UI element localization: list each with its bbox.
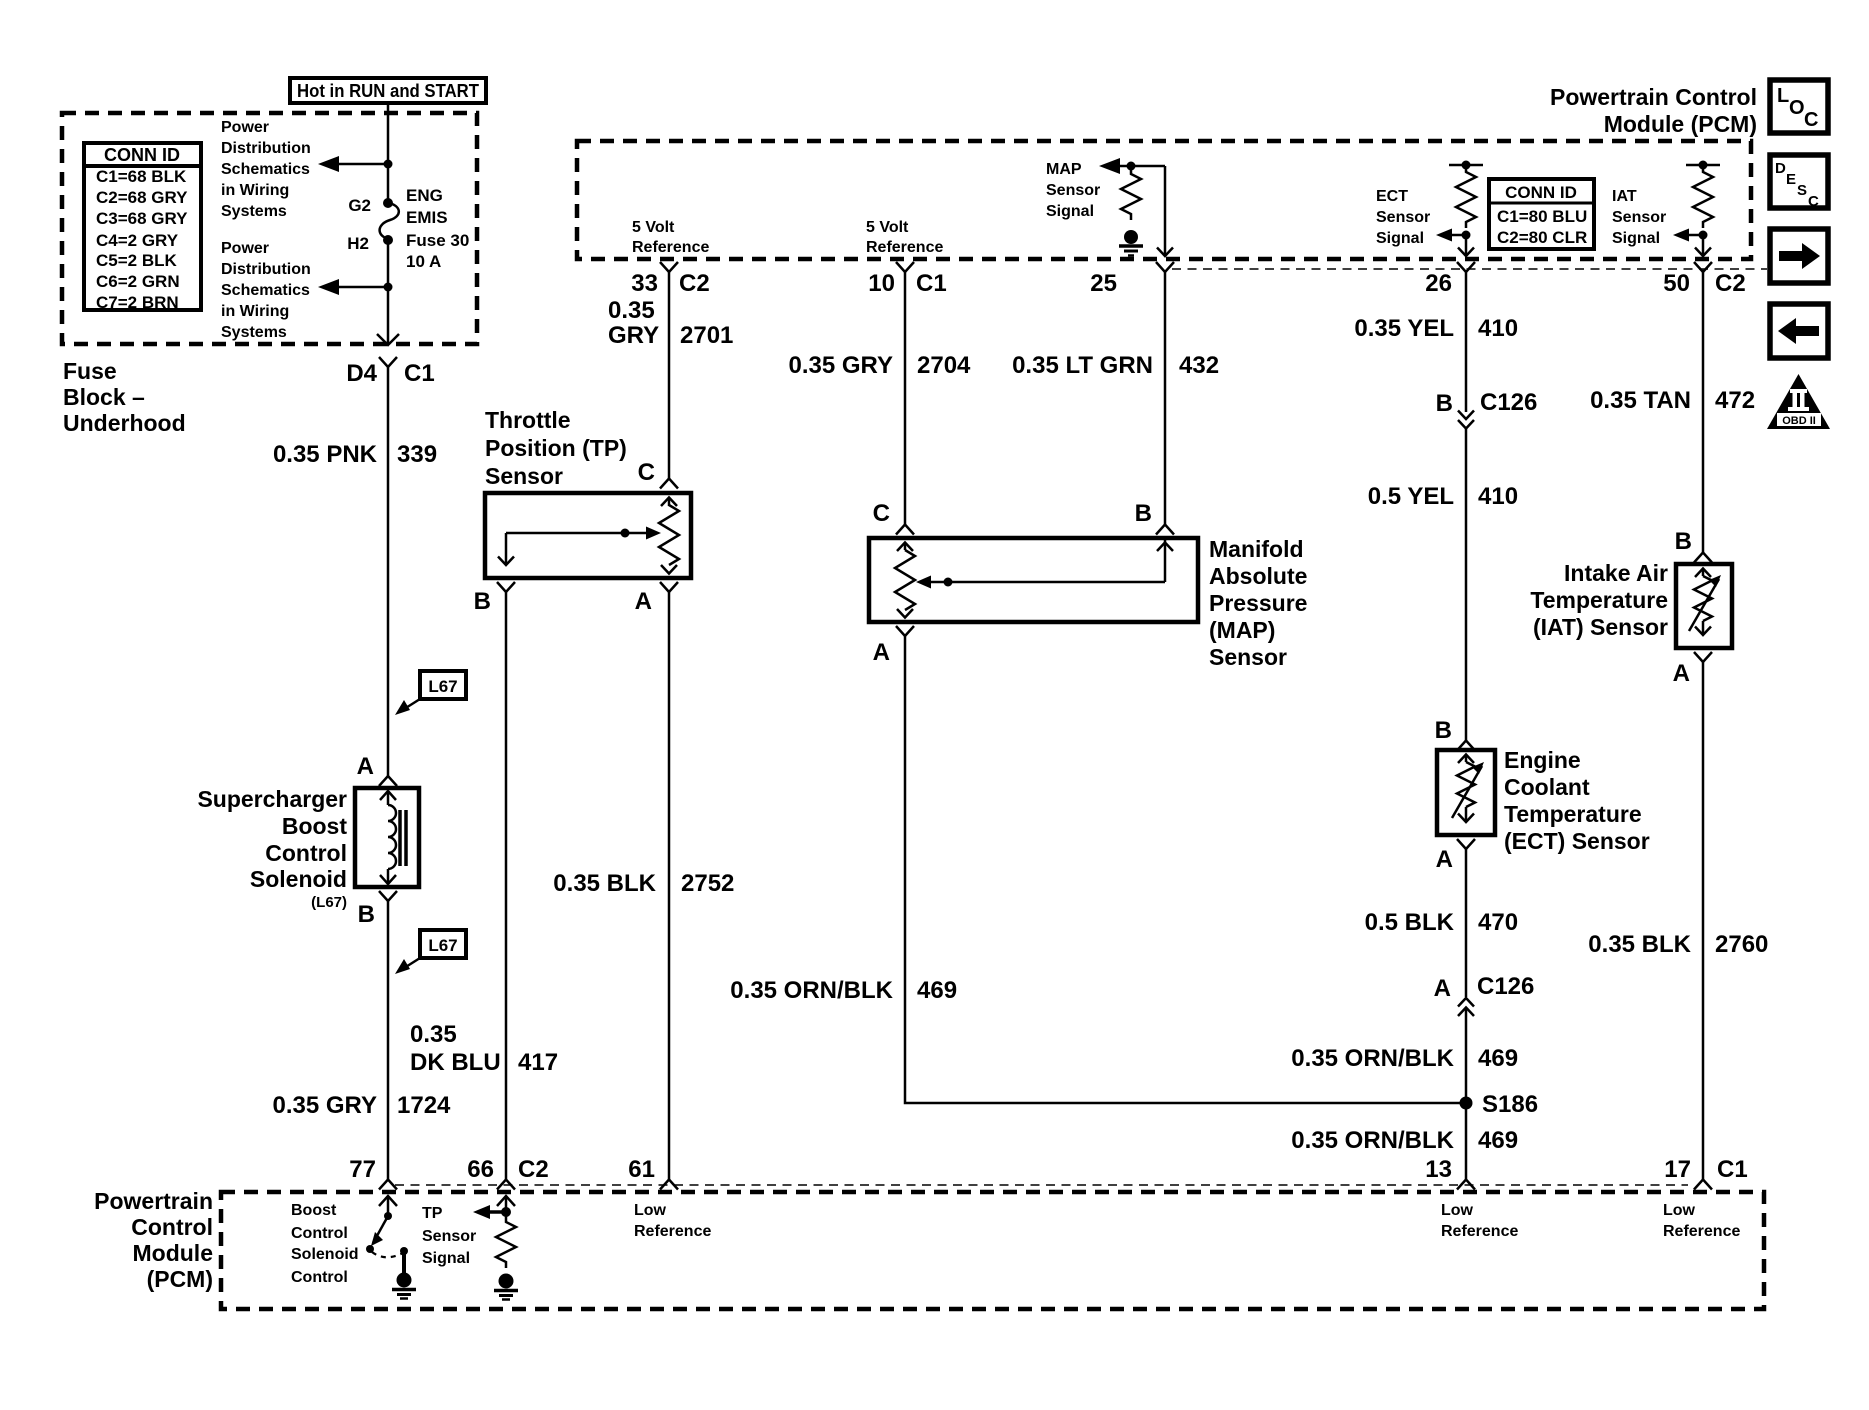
pin 61 chevron [660, 1180, 678, 1190]
svg-text:Control: Control [131, 1214, 213, 1240]
L67 tag lower [395, 930, 466, 974]
svg-text:B: B [1436, 390, 1453, 417]
svg-text:A: A [357, 753, 374, 780]
svg-text:Coolant: Coolant [1504, 774, 1590, 800]
svg-text:C6=2 GRN: C6=2 GRN [96, 272, 180, 291]
svg-text:2701: 2701 [680, 322, 733, 349]
svg-text:Low: Low [634, 1202, 667, 1219]
svg-text:C1=80 BLU: C1=80 BLU [1497, 207, 1587, 226]
svg-text:Signal: Signal [422, 1250, 470, 1267]
wire from Hot in RUN feed down to fuse [387, 102, 390, 203]
PCM CONN ID table [1489, 179, 1594, 249]
TP sensor potentiometer resistor [659, 498, 679, 574]
ECT sensor name [1504, 747, 1650, 854]
svg-text:Reference: Reference [1441, 1223, 1518, 1240]
svg-text:Control: Control [265, 840, 347, 866]
svg-text:5 Volt: 5 Volt [866, 219, 909, 236]
svg-text:G2: G2 [348, 196, 371, 215]
connector pin D4 C1 chevron [379, 357, 397, 367]
svg-text:Power: Power [221, 119, 269, 136]
svg-text:Power: Power [221, 240, 269, 257]
svg-text:10 A: 10 A [406, 252, 441, 271]
svg-text:77: 77 [349, 1156, 376, 1183]
svg-text:L: L [1777, 85, 1789, 107]
svg-text:2704: 2704 [917, 352, 971, 379]
MAP sensor resistor [895, 543, 915, 618]
svg-text:C: C [1804, 109, 1818, 131]
svg-text:Powertrain Control: Powertrain Control [1550, 84, 1757, 110]
svg-text:26: 26 [1425, 270, 1452, 297]
node A of boost solenoid [379, 776, 397, 786]
wire 469 ORN/BLK from C126 to splice S186 [1465, 1008, 1468, 1180]
svg-text:Temperature: Temperature [1530, 587, 1668, 613]
svg-text:O: O [1789, 97, 1805, 119]
svg-text:Reference: Reference [632, 239, 709, 256]
pin 25 chevron of PCM [1156, 262, 1174, 272]
svg-text:C5=2 BLK: C5=2 BLK [96, 251, 177, 270]
svg-text:410: 410 [1478, 315, 1518, 342]
svg-text:C: C [1808, 193, 1819, 210]
svg-text:TP: TP [422, 1205, 443, 1222]
svg-text:(ECT) Sensor: (ECT) Sensor [1504, 828, 1650, 854]
svg-text:Solenoid: Solenoid [250, 866, 347, 892]
svg-text:Systems: Systems [221, 324, 287, 341]
svg-text:Reference: Reference [1663, 1223, 1740, 1240]
wire 410 YEL from C126 to ECT B [1465, 429, 1468, 741]
power feed box Hot in RUN and START [290, 78, 486, 103]
MAP sensor box [869, 538, 1198, 622]
svg-text:470: 470 [1478, 909, 1518, 936]
TP sensor box [485, 493, 691, 578]
DESC nav icon [1770, 155, 1828, 210]
svg-text:0.35 LT GRN: 0.35 LT GRN [1012, 352, 1153, 379]
svg-text:Underhood: Underhood [63, 410, 186, 436]
wire 1724 GRY from solenoid B to PCM pin 77 [387, 901, 390, 1180]
svg-text:E: E [1786, 171, 1796, 188]
svg-text:L67: L67 [428, 677, 457, 696]
svg-text:Systems: Systems [221, 203, 287, 220]
svg-text:C2=80 CLR: C2=80 CLR [1497, 228, 1587, 247]
pin 17 C1 chevron [1694, 1180, 1712, 1190]
wire 410 YEL from PCM 26 to C126 [1465, 272, 1468, 412]
svg-text:Boost: Boost [282, 813, 348, 839]
svg-text:Powertrain: Powertrain [94, 1188, 213, 1214]
svg-text:Fuse: Fuse [63, 358, 117, 384]
svg-text:0.35 ORN/BLK: 0.35 ORN/BLK [1291, 1127, 1454, 1154]
svg-text:Temperature: Temperature [1504, 801, 1642, 827]
fuse ENG EMIS Fuse 30 10A [347, 186, 469, 271]
L67 tag upper [395, 671, 466, 715]
svg-text:C1: C1 [404, 360, 435, 387]
supercharger boost control solenoid [197, 786, 419, 911]
svg-text:A: A [1673, 660, 1690, 687]
ground at boost driver [392, 1273, 416, 1299]
boost control driver switch [366, 1196, 408, 1273]
PCM name upper right [1550, 84, 1757, 137]
svg-text:B: B [474, 588, 491, 615]
svg-text:C3=68 GRY: C3=68 GRY [96, 209, 188, 228]
branch arrow to power distribution lower [318, 279, 393, 295]
svg-text:469: 469 [1478, 1045, 1518, 1072]
MAP sensor name [1209, 536, 1307, 670]
svg-text:C2: C2 [679, 270, 710, 297]
svg-text:ECT: ECT [1376, 188, 1408, 205]
svg-text:17: 17 [1664, 1156, 1691, 1183]
inline connector C126 pin A [1434, 973, 1535, 1016]
svg-text:GRY: GRY [608, 322, 659, 349]
svg-text:in Wiring: in Wiring [221, 303, 289, 320]
svg-text:Pressure: Pressure [1209, 590, 1307, 616]
svg-text:0.35 BLK: 0.35 BLK [553, 870, 656, 897]
svg-text:C1: C1 [1717, 1156, 1748, 1183]
svg-text:0.35 GRY: 0.35 GRY [789, 352, 894, 379]
svg-text:Position (TP): Position (TP) [485, 435, 627, 461]
svg-text:C1: C1 [916, 270, 947, 297]
svg-text:C126: C126 [1480, 389, 1537, 416]
svg-text:IAT: IAT [1612, 188, 1637, 205]
svg-text:C2=68 GRY: C2=68 GRY [96, 188, 188, 207]
svg-text:5 Volt: 5 Volt [632, 219, 675, 236]
svg-text:472: 472 [1715, 387, 1755, 414]
svg-text:Boost: Boost [291, 1202, 337, 1219]
svg-text:CONN ID: CONN ID [1505, 183, 1577, 202]
low reference label pin 61 [634, 1202, 711, 1240]
svg-text:Low: Low [1441, 1202, 1474, 1219]
TP sensor signal input circuit [473, 1196, 516, 1268]
wire 417 DK BLU from TP B to PCM pin 66 [505, 592, 508, 1180]
svg-text:Signal: Signal [1612, 230, 1660, 247]
wire 339 PNK from fuse block to solenoid [387, 367, 390, 776]
svg-text:C126: C126 [1477, 973, 1534, 1000]
svg-text:Sensor: Sensor [1612, 209, 1666, 226]
svg-text:0.35: 0.35 [410, 1021, 457, 1048]
LOC nav icon [1770, 80, 1828, 133]
svg-text:0.5 BLK: 0.5 BLK [1365, 909, 1455, 936]
svg-text:Intake Air: Intake Air [1564, 560, 1668, 586]
svg-text:A: A [635, 588, 652, 615]
TP sensor signal label inside PCM [422, 1205, 476, 1267]
svg-text:Signal: Signal [1376, 230, 1424, 247]
svg-text:Distribution: Distribution [221, 140, 311, 157]
svg-text:EMIS: EMIS [406, 208, 448, 227]
arrow leaving fuse block [377, 334, 399, 345]
svg-text:0.35 BLK: 0.35 BLK [1588, 931, 1691, 958]
pin 26 chevron of PCM [1457, 262, 1475, 272]
ECT thermistor [1452, 755, 1484, 823]
ECT sensor box [1437, 750, 1495, 835]
svg-text:ENG: ENG [406, 186, 443, 205]
svg-text:Manifold: Manifold [1209, 536, 1304, 562]
svg-text:H2: H2 [347, 234, 369, 253]
svg-text:0.35 TAN: 0.35 TAN [1590, 387, 1691, 414]
boost control solenoid control driver label [291, 1202, 359, 1286]
svg-text:Sensor: Sensor [1209, 644, 1287, 670]
wire MAP signal down arrow inside PCM [1157, 166, 1173, 256]
svg-text:50: 50 [1663, 270, 1690, 297]
PCM upper dashed enclosure [577, 141, 1751, 259]
svg-text:61: 61 [628, 1156, 655, 1183]
svg-text:B: B [1135, 500, 1152, 527]
svg-text:(IAT) Sensor: (IAT) Sensor [1533, 614, 1668, 640]
svg-text:A: A [1436, 846, 1453, 873]
svg-text:C: C [638, 459, 655, 486]
PCM lower dashed enclosure [221, 1192, 1764, 1309]
power distribution reference text upper [221, 119, 311, 220]
OBD II icon [1767, 374, 1830, 429]
svg-text:0.35 GRY: 0.35 GRY [273, 1092, 378, 1119]
svg-text:66: 66 [467, 1156, 494, 1183]
svg-text:(PCM): (PCM) [147, 1266, 213, 1292]
svg-text:469: 469 [917, 977, 957, 1004]
wire 472 TAN from PCM 50 to IAT B [1702, 272, 1705, 553]
svg-text:CONN ID: CONN ID [104, 145, 180, 165]
IAT sensor box [1676, 564, 1732, 648]
MAP sensor signal label and pullup inside PCM [1046, 158, 1165, 256]
svg-text:0.5 YEL: 0.5 YEL [1368, 483, 1454, 510]
wire 469 ORN/BLK from MAP A to splice S186 [905, 636, 1466, 1103]
svg-text:Control: Control [291, 1225, 348, 1242]
svg-text:C4=2 GRY: C4=2 GRY [96, 231, 179, 250]
svg-text:Control: Control [291, 1269, 348, 1286]
power distribution reference text lower [221, 240, 311, 341]
svg-text:Distribution: Distribution [221, 261, 311, 278]
svg-text:Hot in RUN and START: Hot in RUN and START [297, 81, 479, 101]
svg-text:13: 13 [1425, 1156, 1452, 1183]
svg-text:DK BLU: DK BLU [410, 1049, 501, 1076]
wire 2752 BLK from TP A to PCM pin 61 [668, 592, 671, 1180]
svg-text:Reference: Reference [634, 1223, 711, 1240]
wire 2760 BLK from IAT A to PCM pin 17 [1702, 662, 1705, 1180]
svg-text:0.35: 0.35 [608, 297, 655, 324]
pin 66 chevron [497, 1180, 515, 1190]
PCM name lower left [94, 1188, 213, 1292]
svg-text:339: 339 [397, 441, 437, 468]
fuse block CONN ID table [84, 143, 201, 312]
IAT thermistor [1689, 569, 1721, 636]
inline connector C126 pin B [1436, 389, 1538, 429]
pin 50 C2 chevron of PCM [1694, 262, 1712, 272]
svg-text:MAP: MAP [1046, 161, 1082, 178]
svg-text:Sensor: Sensor [1376, 209, 1430, 226]
svg-text:469: 469 [1478, 1127, 1518, 1154]
pin 77 chevron [379, 1180, 397, 1190]
svg-text:Sensor: Sensor [422, 1228, 476, 1245]
svg-text:0.35 ORN/BLK: 0.35 ORN/BLK [730, 977, 893, 1004]
forward arrow nav icon [1770, 229, 1828, 283]
svg-text:B: B [358, 901, 375, 928]
svg-text:B: B [1435, 717, 1452, 744]
svg-text:Absolute: Absolute [1209, 563, 1307, 589]
TP sensor wiper arm [498, 527, 661, 566]
node B of boost solenoid [379, 891, 397, 901]
svg-text:A: A [873, 639, 890, 666]
svg-text:25: 25 [1090, 270, 1117, 297]
svg-text:2752: 2752 [681, 870, 734, 897]
svg-text:Engine: Engine [1504, 747, 1581, 773]
svg-text:33: 33 [631, 270, 658, 297]
svg-text:410: 410 [1478, 483, 1518, 510]
svg-text:C1=68 BLK: C1=68 BLK [96, 167, 187, 186]
svg-text:Module: Module [133, 1240, 214, 1266]
IAT sensor name [1530, 560, 1668, 640]
low reference label pin 17 [1663, 1202, 1740, 1240]
svg-text:1724: 1724 [397, 1092, 451, 1119]
svg-text:Throttle: Throttle [485, 407, 571, 433]
low reference label pin 13 [1441, 1202, 1518, 1240]
svg-text:D4: D4 [346, 360, 377, 387]
svg-text:S: S [1797, 182, 1807, 199]
svg-text:(MAP): (MAP) [1209, 617, 1275, 643]
svg-text:0.35 PNK: 0.35 PNK [273, 441, 378, 468]
fuse block name [63, 358, 186, 436]
svg-text:Module (PCM): Module (PCM) [1604, 111, 1757, 137]
5 volt reference label right [866, 219, 943, 256]
branch arrow to power distribution upper [318, 156, 393, 172]
svg-text:C2: C2 [1715, 270, 1746, 297]
svg-text:in Wiring: in Wiring [221, 182, 289, 199]
svg-text:Reference: Reference [866, 239, 943, 256]
IAT sensor signal label and pullup inside PCM [1612, 161, 1720, 257]
ground at TP input [494, 1274, 518, 1300]
ECT sensor signal label and pullup inside PCM [1376, 161, 1483, 257]
wire 470 BLK from ECT A to C126 [1465, 849, 1468, 997]
svg-text:Schematics: Schematics [221, 161, 310, 178]
svg-text:417: 417 [518, 1049, 558, 1076]
svg-text:B: B [1675, 528, 1692, 555]
pin 13 chevron [1457, 1180, 1475, 1190]
svg-text:A: A [1434, 975, 1451, 1002]
splice S186 [1460, 1097, 1473, 1110]
connector face thin dashed line upper [1172, 268, 1767, 270]
svg-text:Signal: Signal [1046, 203, 1094, 220]
svg-text:C7=2 BRN: C7=2 BRN [96, 293, 179, 312]
back arrow nav icon [1770, 304, 1828, 358]
svg-text:Solenoid: Solenoid [291, 1246, 359, 1263]
svg-text:OBD II: OBD II [1782, 415, 1816, 427]
svg-text:0.35 ORN/BLK: 0.35 ORN/BLK [1291, 1045, 1454, 1072]
svg-text:Schematics: Schematics [221, 282, 310, 299]
pin 10 C1 chevron of PCM [896, 262, 914, 272]
svg-text:Fuse 30: Fuse 30 [406, 231, 469, 250]
wire 2701 GRY 5V reference to TP C [668, 272, 671, 479]
fuse block dashed enclosure [62, 113, 477, 344]
wire 432 LT GRN from PCM 25 to MAP B [1164, 272, 1167, 525]
svg-text:C2: C2 [518, 1156, 549, 1183]
svg-text:Supercharger: Supercharger [197, 786, 347, 812]
wire from fuse down to fuse block edge [387, 240, 390, 345]
svg-text:10: 10 [868, 270, 895, 297]
svg-text:Sensor: Sensor [485, 463, 563, 489]
svg-text:Sensor: Sensor [1046, 182, 1100, 199]
svg-text:0.35 YEL: 0.35 YEL [1354, 315, 1454, 342]
MAP sensor wiper arm [916, 538, 1173, 589]
svg-text:S186: S186 [1482, 1091, 1538, 1118]
pin 33 C2 chevron of PCM [660, 262, 678, 272]
svg-text:2760: 2760 [1715, 931, 1768, 958]
connector face thin dashed line lower [395, 1184, 1688, 1186]
svg-text:C: C [873, 500, 890, 527]
svg-text:L67: L67 [428, 936, 457, 955]
svg-text:432: 432 [1179, 352, 1219, 379]
svg-text:D: D [1775, 160, 1786, 177]
TP sensor name [485, 407, 627, 489]
wire 2704 GRY 5V reference to MAP C [904, 272, 907, 525]
svg-text:Block –: Block – [63, 384, 145, 410]
5 volt reference label left [632, 219, 709, 256]
svg-text:Low: Low [1663, 1202, 1696, 1219]
svg-text:(L67): (L67) [311, 894, 347, 911]
